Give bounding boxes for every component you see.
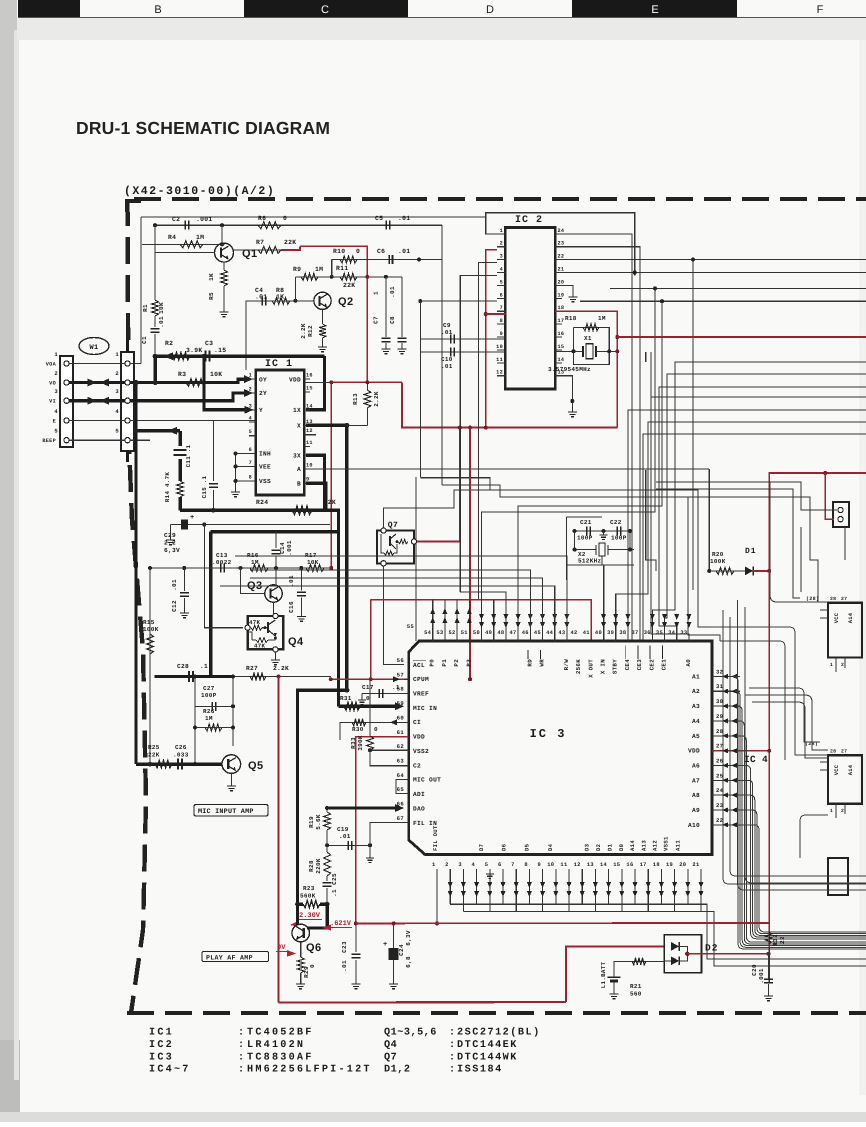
IC3 addr bus wire pin 30 [737,706,866,946]
svg-text:C20: C20 [751,964,758,976]
svg-text:3: 3 [54,388,58,395]
svg-text:3.579545MHz: 3.579545MHz [548,366,591,373]
svg-text:A13: A13 [641,840,648,851]
resistor R27 [250,673,266,680]
wire X thick down [298,425,347,904]
IC3 top stub pin 45 [542,578,544,641]
svg-text:63: 63 [397,758,405,765]
svg-text:(28): (28) [806,596,819,602]
wire left bus d [479,600,494,641]
svg-text:16: 16 [306,373,313,379]
IC1 left pin 4 [249,421,256,423]
svg-text:Q1~3,5,6: Q1~3,5,6 [384,1028,437,1039]
svg-text::: : [449,1052,455,1063]
node X branch [344,688,349,693]
battery L1 [608,976,621,978]
wire data bus lower1 [450,904,866,959]
wire IC1 pin3 thick Y [204,356,250,410]
wire X2 outer box [566,517,634,565]
svg-text:R2: R2 [165,340,173,347]
svg-text:C3: C3 [205,340,213,347]
transistor Q2 [314,292,331,309]
connector W1 pin 3 row VI [64,398,69,403]
IC2 left pin 7 [497,310,505,312]
svg-text:ADI: ADI [413,791,425,798]
svg-text:R18: R18 [565,315,577,322]
svg-text:A1: A1 [692,673,700,680]
resistor R11 [340,273,357,280]
svg-text:3: 3 [458,862,462,868]
resistor R33 chain [369,679,371,736]
ground C16 [297,617,306,622]
wire MIC OUT loop [396,779,409,793]
svg-text:E: E [651,4,658,16]
wire R26 row [195,727,233,729]
svg-text:12: 12 [496,370,503,376]
svg-text:R6: R6 [258,215,266,222]
red wire bottom border [279,1001,566,1004]
svg-text:4: 4 [54,408,58,415]
wire bus3 [610,287,866,289]
svg-text:R27: R27 [246,665,258,672]
IC2 right pin 24 [555,233,562,235]
svg-text:.01: .01 [398,248,410,255]
svg-text:IC3: IC3 [149,1052,174,1063]
connector W1 pin 2 row VO [64,380,69,385]
svg-text:7: 7 [500,305,503,311]
wire long row3 [220,586,555,641]
svg-text:10K: 10K [158,302,165,314]
IC3 data stub pin 20 [687,869,689,904]
diode D2 box [664,935,701,973]
svg-text:15: 15 [306,386,313,392]
svg-text:24: 24 [558,228,565,234]
svg-text:512KHz: 512KHz [578,558,602,565]
wire R24 row thick [180,509,338,512]
svg-text:560: 560 [630,991,642,998]
svg-text:R11: R11 [336,265,348,272]
IC3 data stub pin 2 [449,869,451,904]
diode D2 lower [671,956,679,965]
wire R15 column [149,568,151,764]
wire VI to IC1 pin2 thick [130,393,249,401]
node R27 red tap [277,675,281,679]
IC IC4 ram box1 [828,603,862,658]
red wire X1 to edge [617,336,866,338]
wire thick mid loop [211,530,339,533]
svg-text:D2: D2 [595,843,602,851]
red wire VDD61 [356,737,409,924]
ground C8 [398,349,407,354]
IC3 top stub pin 47 [517,506,519,641]
IC IC1 box [256,370,305,495]
svg-text:X IN: X IN [600,659,607,674]
wire C28row to R27 [233,676,300,678]
resistor Q4 47K lower [256,638,268,643]
resistor R23 [298,902,304,905]
wire ic4 mid link [745,695,828,750]
svg-text:19: 19 [558,292,565,298]
svg-text:.01: .01 [441,329,453,336]
IC1 right pin 9 B [304,482,310,484]
wire pin4net drop [441,240,443,485]
svg-text:C24: C24 [398,944,405,956]
svg-text:R31: R31 [340,695,352,702]
red wire VDD27 [712,750,769,752]
svg-text::: : [238,1065,244,1076]
wire pin22 drop [692,260,694,590]
wire pin55 net [415,477,417,641]
IC3 addr bus wire pin 25 [740,780,866,937]
svg-text:A0: A0 [685,659,692,667]
IC3 data stub pin 11 [568,869,570,911]
svg-text:1: 1 [830,662,833,668]
ground IC2 pin13 net [568,412,577,417]
red wire to IC2 area [402,382,617,427]
wire R12 to gnd [322,338,324,347]
svg-text:B: B [154,4,161,16]
svg-text:CE2: CE2 [648,659,655,671]
svg-text:14: 14 [558,357,565,363]
IC3 top stub pin 35 [664,619,666,641]
svg-text:(X42-3010-00)(A/2): (X42-3010-00)(A/2) [124,185,275,198]
svg-text:.01: .01 [398,215,410,222]
svg-text:C21: C21 [580,519,592,526]
svg-text:65: 65 [397,786,405,793]
svg-text:IC1: IC1 [149,1028,174,1039]
wire vert group a [646,470,656,571]
IC3 data stub pin 3 [462,869,464,911]
svg-text:0: 0 [356,248,360,255]
svg-text:39: 39 [607,630,614,636]
svg-text:3.9K: 3.9K [186,347,203,354]
svg-text:27: 27 [841,596,847,602]
wire stair1 [652,362,866,641]
svg-text:A8: A8 [692,792,700,799]
svg-text:VEE: VEE [259,464,271,471]
diode D1 [745,567,753,576]
wire W1 row5 thin [69,439,125,441]
IC3 addr bus wire pin 26 [740,765,866,938]
wire IC2 pin4 drop [460,276,497,592]
svg-text:51: 51 [461,630,468,636]
svg-text:C13: C13 [216,552,228,559]
wire R20 row [709,570,745,572]
red wire IC2 pin2 drop [486,250,497,428]
svg-text:27: 27 [841,749,847,755]
svg-text:R23: R23 [303,885,315,892]
svg-text:4: 4 [472,862,476,868]
svg-text:R5: R5 [208,292,215,300]
svg-text:A14: A14 [629,840,636,851]
wire arrow row to C11 [136,429,180,432]
svg-text:R30: R30 [352,726,364,733]
node R1 top [153,223,157,227]
svg-text:9: 9 [538,862,542,868]
capacitor C24 electrolytic [393,923,395,948]
svg-text:R/W: R/W [563,659,570,671]
svg-text:C2: C2 [413,762,421,769]
wire ic4 box1 stub28 [820,609,828,611]
svg-text:2Y: 2Y [259,390,267,397]
svg-text:VREF: VREF [413,691,429,698]
wire IC1 pin13 stub [306,434,316,436]
svg-text:D1,2: D1,2 [384,1065,410,1076]
svg-text:VDD: VDD [289,376,301,383]
red wire vdd rail [356,922,769,924]
svg-text:0V: 0V [277,944,286,952]
IC1 right pin 12 [304,434,310,436]
IC2 left pin 9 [497,336,505,338]
wire ic4 feed3 [662,497,818,603]
svg-text:.001: .001 [286,540,293,556]
capacitor C27 [211,702,213,711]
IC3 data stub pin 21 [700,869,702,911]
svg-text:17: 17 [558,318,565,324]
wire FIL IN [370,823,409,859]
svg-text:28: 28 [830,596,836,602]
svg-text:BEEP: BEEP [42,438,56,444]
svg-text:10: 10 [547,862,554,868]
capacitor C17 [362,693,409,695]
wire stair into ic4 b [720,641,785,760]
wire R1 to C1 [154,316,156,327]
svg-text:22K: 22K [343,282,355,289]
capacitor C28 [188,671,190,682]
IC2 left pin 8 [497,323,505,325]
svg-text:57: 57 [397,671,404,678]
wire ic4 top loop [770,482,828,602]
wire R10 row [332,259,442,261]
svg-text:P0: P0 [429,659,436,667]
resistor R31 [344,703,360,710]
IC1 left pin 2 2Y [249,392,256,394]
svg-text:F: F [817,4,824,16]
svg-text:0: 0 [309,964,316,968]
wire C2 row [155,224,442,226]
svg-text:C10: C10 [441,356,453,363]
svg-text:Q6: Q6 [306,942,322,954]
capacitor C21 [575,530,630,532]
IC1 right pin 3X [304,454,310,456]
svg-text:RD: RD [526,659,533,667]
svg-text:C11 .1: C11 .1 [185,444,192,467]
resistor R19 [326,808,328,812]
IC3 data stub pin 9 [542,869,544,911]
node row dots [182,566,186,570]
capacitor C26 [177,759,179,770]
wire thick IC1 top loop [306,356,325,410]
pin Q7 top [381,528,386,533]
svg-text:C12: C12 [171,600,178,612]
red wire VDD row [331,381,402,383]
red wire XOUT drop [370,600,372,680]
IC IC2 box [505,228,555,390]
wire W1 row1 [69,363,125,365]
resistor R25 [155,761,172,768]
IC2 right pin 17 [555,323,562,325]
wire C29 gnd drop [170,525,172,541]
resistor R30 [352,719,366,726]
ground Q6 emitter [296,984,305,989]
svg-text:1K: 1K [208,273,215,281]
svg-text:C16: C16 [288,601,295,613]
svg-text:D2: D2 [705,943,718,954]
IC1 right pin 13 X [304,424,310,426]
svg-text:5: 5 [115,428,119,435]
svg-text:1M: 1M [196,234,204,241]
svg-text:R9: R9 [293,266,301,273]
svg-text:R32: R32 [772,934,779,946]
svg-text:A9: A9 [692,807,700,814]
capacitor C4 [261,296,263,305]
wire E row to IC1 [130,420,256,422]
wire W1 bottom stub [126,451,129,462]
IC1 right pin 14 1X [304,409,310,411]
IC3 data stub pin 18 [660,869,662,904]
transistor Q3 [265,585,282,602]
svg-text:TC8830AF: TC8830AF [247,1052,314,1063]
wire Q5 emitter [230,773,232,786]
capacitor C20 [768,954,770,979]
ground IC2 pin19 [569,297,578,302]
IC2 right pin 16 [555,336,562,338]
svg-text:1: 1 [432,862,436,868]
wire thick mid left drop [209,532,212,677]
wire stair6 [616,422,866,641]
svg-text:11: 11 [306,440,313,446]
svg-text:.621V: .621V [330,920,352,928]
red wire D2 to R32 [687,953,768,955]
wire Q6 collector loop [307,904,327,928]
svg-text:5: 5 [485,862,489,868]
red wire Q7 drop [417,428,460,542]
wire left long2 [520,497,720,641]
svg-text:1M: 1M [315,266,323,273]
svg-text:.01: .01 [255,294,267,301]
wire WR long row [250,578,543,641]
svg-text:R24: R24 [256,499,268,506]
ground Q1 emitter [220,312,229,317]
svg-text:0: 0 [366,695,370,702]
wire VSS2 row [370,749,409,751]
IC1 right pin 15 [304,391,310,393]
IC3 data stub pin 7 [515,869,517,911]
svg-text:C2: C2 [172,216,180,223]
IC3 top stub pin 46 [529,570,531,641]
wire connector upper net [772,482,837,510]
wire IC2 pin6 link [420,300,497,302]
svg-text:IC 1: IC 1 [265,359,293,370]
IC3 top stub pin 39 [615,594,617,641]
red wire vdd tall drop [768,571,770,948]
IC3 bottom gnd pin4 [489,869,491,874]
svg-text:A2: A2 [692,688,700,695]
svg-text:1X: 1X [293,407,301,414]
red wire CPUM row [331,678,404,680]
capacitor C2 [184,221,186,230]
resistor R2 [172,353,190,360]
svg-text:P1: P1 [441,659,448,667]
wire W1 row1 right [130,363,141,365]
svg-text:5.6K: 5.6K [315,814,322,830]
ground Q4 [271,660,280,665]
svg-text:1: 1 [249,373,252,379]
wire IC1 INH/VEE/VSS column [236,453,256,455]
svg-text:C7: C7 [373,316,380,324]
IC2 right pin 13 [555,375,562,377]
IC2 left pin 1 [497,233,505,235]
wire stair into ic4 a [710,627,828,755]
wire bus4 [580,300,866,302]
svg-text:60: 60 [397,714,405,721]
svg-text:6,3V: 6,3V [164,547,180,554]
svg-text:R20: R20 [712,551,724,558]
svg-text:8: 8 [500,318,503,324]
IC3 data stub pin 16 [634,869,636,904]
svg-text:44: 44 [546,630,554,636]
wire Q2 base row [246,300,314,302]
wire stair mid1 [645,352,647,362]
svg-text:47: 47 [510,630,517,636]
node X1 red junction [615,349,619,353]
wire ic4 bundle v1 [723,610,866,884]
svg-text:1M: 1M [205,715,213,722]
node row red dot [329,566,333,570]
IC2 left pin 6 [497,297,505,299]
svg-text:IC 3: IC 3 [530,727,567,741]
svg-text:22: 22 [779,936,786,944]
svg-text:256K: 256K [575,659,582,674]
svg-text:X OUT: X OUT [587,659,594,678]
svg-text:R26: R26 [203,708,215,715]
svg-text:Q7: Q7 [384,1052,397,1063]
wire bus4 drop [518,301,662,641]
wire CI row [348,721,409,723]
svg-text:28: 28 [830,749,836,755]
svg-text:R15: R15 [143,619,155,626]
svg-text:P3: P3 [465,659,472,667]
wire ACL net [384,664,404,666]
label MIC INPUT AMP box [194,805,268,817]
svg-text:D5: D5 [524,843,531,851]
node R9/R10 link [330,275,334,279]
svg-text:C22: C22 [610,519,622,526]
IC3 top stub pin 50 [481,512,483,641]
wire stair7 [643,434,866,641]
wire IC1 3X thick [306,455,325,510]
svg-text:A10: A10 [688,822,700,829]
svg-text:8: 8 [249,474,252,480]
wire MIC IN thick [339,705,401,708]
wire X2 to XIN [601,556,603,565]
IC1 left pin 3 Y [249,409,256,411]
svg-text:Q5: Q5 [248,760,264,772]
svg-text:VSS: VSS [259,478,271,485]
svg-text:11: 11 [560,862,567,868]
svg-text:50: 50 [473,630,480,636]
svg-text:D7: D7 [478,844,485,851]
wire A net down to R20 [708,469,710,571]
svg-text:C17: C17 [362,684,374,691]
wire W1 row3 thick arrows [69,399,125,402]
connector W1 pin 1 row VOA [64,361,69,366]
wire ic4 box2 bottom stub [835,804,837,818]
wire data bus lower2 [463,911,866,966]
svg-text:DRU-1 SCHEMATIC DIAGRAM: DRU-1 SCHEMATIC DIAGRAM [76,118,330,138]
resistor R24 [292,506,312,514]
svg-text:1: 1 [500,228,503,234]
